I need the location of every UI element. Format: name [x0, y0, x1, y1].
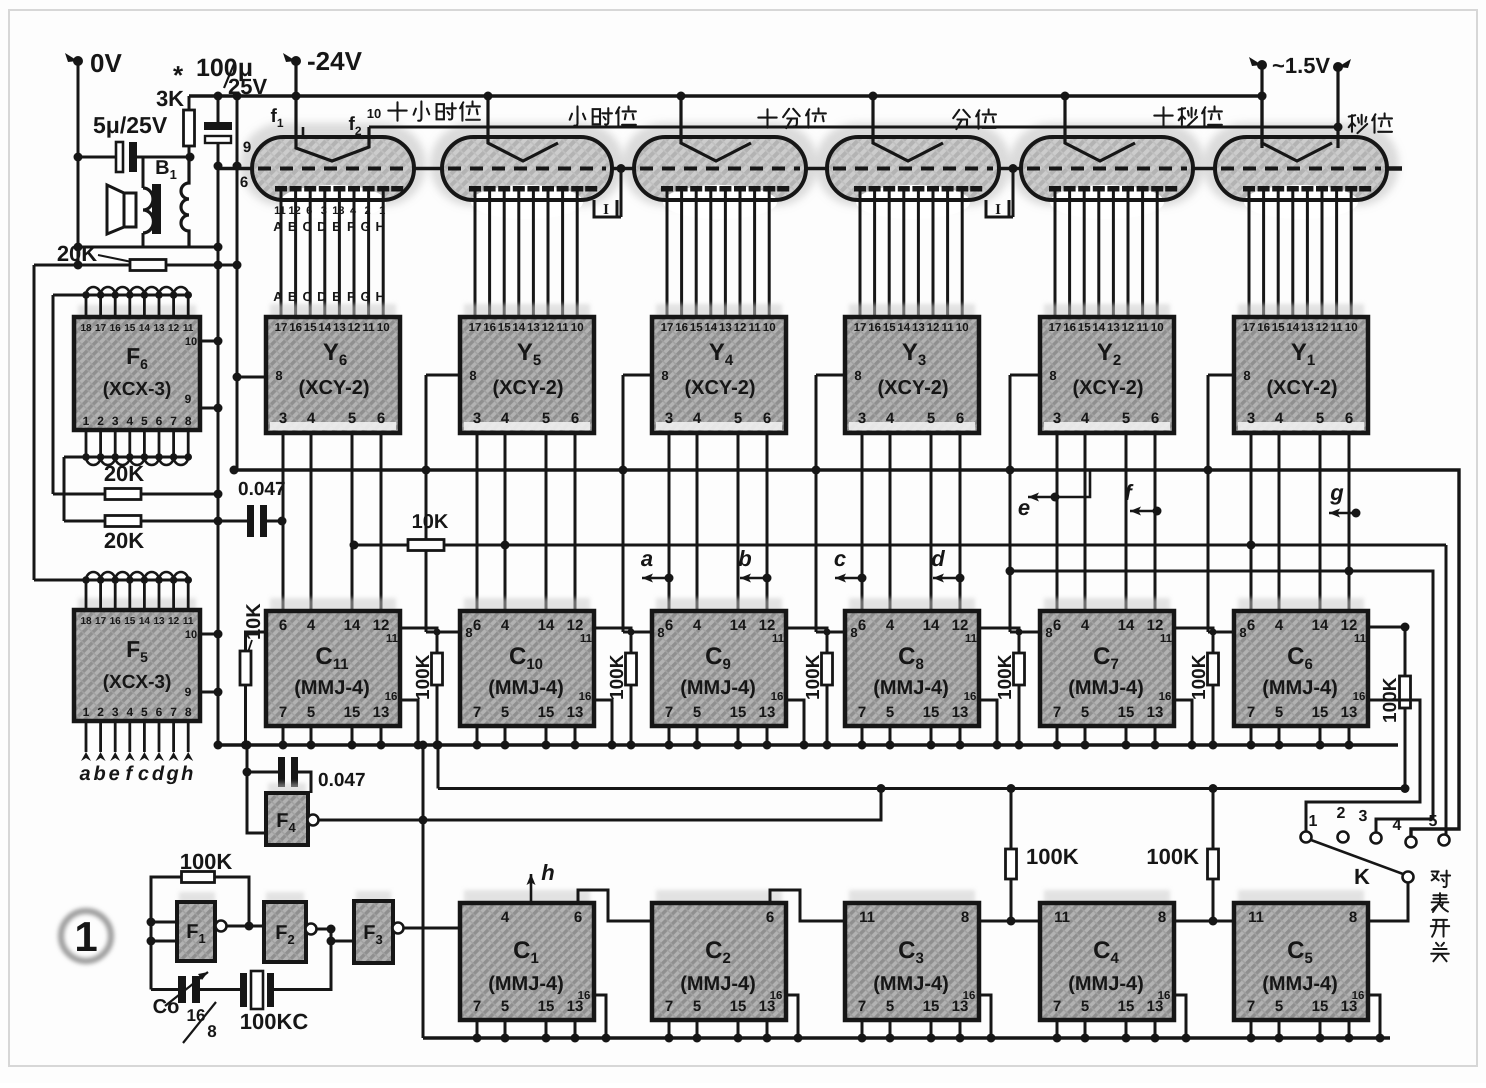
wire ground bus (C row) — [218, 743, 1398, 746]
svg-text:10: 10 — [571, 322, 584, 334]
svg-text:3: 3 — [665, 410, 673, 427]
svg-text:3: 3 — [1247, 410, 1255, 427]
svg-text:12: 12 — [168, 323, 180, 334]
svg-text:17: 17 — [1049, 322, 1062, 334]
svg-text:1: 1 — [379, 205, 385, 217]
C1 bottom pin wires — [476, 1020, 479, 1038]
C10 bottom pin wires — [476, 726, 479, 745]
svg-text:16: 16 — [110, 323, 122, 334]
svg-text:8: 8 — [207, 1022, 216, 1041]
svg-text:8: 8 — [465, 625, 472, 640]
svg-text:2: 2 — [97, 705, 104, 719]
Y3 bottom pin wires — [861, 433, 864, 611]
svg-text:5: 5 — [501, 998, 509, 1015]
svg-text:2: 2 — [97, 414, 104, 428]
svg-text:4: 4 — [1275, 410, 1284, 427]
svg-text:K: K — [1354, 864, 1370, 889]
C2 bottom pin wires — [668, 1020, 671, 1038]
C11 pin16 drop — [400, 700, 418, 745]
F5 top pin strap — [34, 579, 188, 582]
svg-text:8: 8 — [469, 368, 476, 383]
svg-text:A: A — [273, 219, 283, 234]
tube 2 label — [1154, 107, 1172, 125]
C5 pin16 drop — [1368, 995, 1380, 1038]
counter IC C8 (MMJ-4) — [849, 598, 975, 613]
svg-text:6: 6 — [1053, 617, 1061, 634]
wire reset vertical x423 — [422, 745, 425, 1038]
svg-text:8: 8 — [1349, 909, 1357, 926]
svg-text:B: B — [288, 289, 297, 304]
svg-text:0.047: 0.047 — [318, 770, 366, 791]
svg-text:4: 4 — [693, 617, 702, 634]
svg-text:6: 6 — [956, 410, 964, 427]
wire riser pin8 column 4 — [623, 374, 652, 377]
svg-text:10: 10 — [367, 106, 381, 121]
svg-text:13: 13 — [759, 704, 776, 721]
svg-text:10: 10 — [185, 629, 197, 641]
svg-text:4: 4 — [126, 414, 133, 428]
svg-text:Co: Co — [153, 996, 180, 1018]
C9 bottom pin wires — [668, 726, 671, 745]
svg-text:11: 11 — [942, 322, 955, 334]
svg-text:16: 16 — [1257, 322, 1270, 334]
svg-text:11: 11 — [859, 909, 875, 926]
svg-text:11: 11 — [749, 322, 762, 334]
C9 pin16 drop — [786, 700, 804, 745]
svg-text:17: 17 — [275, 322, 288, 334]
svg-text:15: 15 — [730, 998, 747, 1015]
terminal -24V — [291, 56, 301, 66]
svg-text:15: 15 — [1312, 704, 1329, 721]
wire bus H5 with 10K — [354, 544, 408, 547]
svg-text:13: 13 — [952, 704, 969, 721]
svg-text:16: 16 — [1158, 990, 1171, 1002]
wire bus2 — [438, 787, 1405, 790]
svg-text:E: E — [332, 219, 341, 234]
svg-text:(MMJ-4): (MMJ-4) — [488, 973, 564, 995]
svg-text:20K: 20K — [104, 528, 144, 553]
svg-text:8: 8 — [854, 368, 861, 383]
svg-text:8: 8 — [961, 909, 969, 926]
svg-text:15: 15 — [1118, 704, 1135, 721]
svg-text:7: 7 — [665, 998, 673, 1015]
tube 3 anode V and -24V drop — [873, 96, 943, 161]
svg-text:13: 13 — [1147, 704, 1164, 721]
C8 pin16 drop — [979, 700, 997, 745]
inverter F2 — [266, 892, 304, 904]
counter IC C6 (MMJ-4) — [1238, 598, 1364, 613]
tube 1 anode V and -24V drop — [1262, 96, 1332, 161]
wire F4 output to bus2 — [318, 789, 881, 821]
wire C6 pin16 to switch contact1 — [1306, 700, 1420, 832]
svg-text:d: d — [152, 763, 165, 785]
svg-text:15: 15 — [1078, 322, 1091, 334]
svg-text:(MMJ-4): (MMJ-4) — [294, 677, 370, 699]
svg-text:6: 6 — [763, 410, 771, 427]
nixie tube digit 2 glow — [1009, 123, 1205, 206]
svg-text:15: 15 — [690, 322, 703, 334]
svg-text:13: 13 — [527, 322, 540, 334]
wire B1 bottom return — [78, 246, 218, 249]
figure circle 1 — [61, 911, 111, 961]
svg-text:11: 11 — [580, 633, 593, 645]
svg-text:5: 5 — [1275, 704, 1283, 721]
F6 top pin strap — [53, 294, 188, 297]
svg-text:100K: 100K — [995, 654, 1016, 700]
resistor 100K column 10 — [594, 628, 631, 653]
svg-text:12: 12 — [1122, 322, 1135, 334]
svg-text:7: 7 — [1053, 704, 1061, 721]
F5 output arrows a b e f c d g h — [85, 721, 88, 752]
svg-text:7: 7 — [473, 704, 481, 721]
svg-text:8: 8 — [275, 368, 282, 383]
svg-text:16: 16 — [1063, 322, 1076, 334]
svg-text:9: 9 — [243, 139, 251, 156]
svg-text:16: 16 — [1159, 691, 1172, 703]
svg-text:18: 18 — [80, 616, 92, 627]
svg-text:11: 11 — [274, 205, 286, 217]
svg-text:15: 15 — [1272, 322, 1285, 334]
svg-text:(XCY-2): (XCY-2) — [1072, 377, 1143, 399]
svg-text:b: b — [738, 546, 751, 571]
Y5 bottom pin wires — [476, 433, 479, 611]
svg-text:G: G — [361, 219, 371, 234]
svg-text:6: 6 — [665, 617, 673, 634]
svg-text:17: 17 — [661, 322, 674, 334]
F6 bottom pin strap — [64, 456, 188, 459]
svg-text:12: 12 — [1147, 617, 1164, 634]
svg-text:10: 10 — [956, 322, 969, 334]
counter IC C1 (MMJ-4) — [464, 890, 590, 905]
svg-text:10: 10 — [763, 322, 776, 334]
svg-text:a: a — [641, 546, 653, 571]
C11 bottom pin wires — [282, 726, 285, 745]
svg-text:F: F — [347, 289, 355, 304]
svg-text:5: 5 — [501, 704, 509, 721]
labels a b c d arrows — [642, 577, 668, 580]
svg-text:(XCY-2): (XCY-2) — [684, 377, 755, 399]
svg-text:14: 14 — [923, 617, 940, 634]
svg-text:14: 14 — [344, 617, 361, 634]
svg-text:3: 3 — [112, 414, 119, 428]
svg-text:15: 15 — [730, 704, 747, 721]
C6 bottom pin wires — [1250, 726, 1253, 745]
counter IC C2 (MMJ-4) — [656, 890, 782, 905]
counter IC C7 (MMJ-4) — [1044, 598, 1170, 613]
svg-text:14: 14 — [730, 617, 747, 634]
svg-text:100K: 100K — [1146, 844, 1199, 869]
nixie tube digit 4 envelope — [634, 137, 806, 200]
svg-text:5: 5 — [1122, 410, 1130, 427]
wire riser pin8 column 3 — [816, 374, 845, 377]
counter IC C4 (MMJ-4) — [1044, 890, 1170, 905]
counter IC C9 (MMJ-4) — [656, 598, 782, 613]
vertical feed line x237 — [236, 96, 239, 470]
F5 right pins — [200, 633, 218, 636]
switch K wiper — [1311, 840, 1403, 874]
svg-text:3: 3 — [1359, 808, 1368, 825]
C4 bottom pin wires — [1056, 1020, 1059, 1038]
svg-text:C: C — [303, 219, 313, 234]
svg-text:4: 4 — [501, 617, 510, 634]
svg-text:c: c — [834, 546, 846, 571]
svg-text:14: 14 — [1312, 617, 1329, 634]
driver IC Y5 (XCY-2) — [464, 304, 590, 319]
svg-text:6: 6 — [240, 174, 248, 191]
svg-text:I: I — [995, 202, 1001, 218]
svg-text:11: 11 — [772, 633, 785, 645]
capacitor 0.047 #2 — [247, 771, 278, 774]
svg-text:15: 15 — [124, 616, 136, 627]
svg-text:13: 13 — [332, 205, 344, 217]
resistor 100K column 9 — [786, 628, 827, 653]
svg-text:5: 5 — [1429, 813, 1438, 830]
svg-text:12: 12 — [1341, 617, 1358, 634]
svg-text:16: 16 — [110, 616, 122, 627]
svg-text:3: 3 — [112, 705, 119, 719]
tube 1 label — [1349, 115, 1367, 133]
svg-text:12: 12 — [288, 205, 300, 217]
svg-text:10: 10 — [1151, 322, 1164, 334]
svg-text:100K: 100K — [1026, 844, 1079, 869]
wire riser pin8 column 2 — [1010, 374, 1040, 377]
svg-text:11: 11 — [183, 616, 194, 627]
svg-text:3: 3 — [1053, 410, 1061, 427]
svg-text:(MMJ-4): (MMJ-4) — [1262, 677, 1338, 699]
svg-text:e: e — [1018, 495, 1030, 520]
Y6 bottom pin wires — [282, 433, 285, 611]
svg-text:(MMJ-4): (MMJ-4) — [680, 677, 756, 699]
svg-text:14: 14 — [1286, 322, 1299, 334]
svg-text:4: 4 — [1275, 617, 1284, 634]
wire bottom ground bus — [423, 1036, 1390, 1039]
svg-text:17: 17 — [854, 322, 867, 334]
svg-text:7: 7 — [858, 704, 866, 721]
wire -24V anode bus H1 — [189, 94, 1262, 98]
tube 6 anode V and -24V drop — [296, 96, 369, 161]
svg-text:20K: 20K — [104, 461, 144, 486]
wire h output — [530, 874, 533, 903]
logic IC F5 (XCX-3) — [78, 598, 196, 612]
svg-text:17: 17 — [95, 323, 107, 334]
svg-text:8: 8 — [1045, 625, 1052, 640]
svg-text:12: 12 — [373, 617, 390, 634]
wire bus H4 — [234, 470, 1459, 837]
oscillator wiring — [151, 921, 177, 924]
svg-text:7: 7 — [1247, 998, 1255, 1015]
C7 pin16 drop — [1174, 700, 1192, 745]
svg-text:4: 4 — [307, 410, 316, 427]
svg-text:(XCY-2): (XCY-2) — [298, 377, 369, 399]
wire 0V rail — [77, 61, 80, 265]
svg-text:4: 4 — [1393, 817, 1402, 834]
tube 4 cathode pins — [666, 190, 669, 317]
svg-text:100K: 100K — [413, 654, 434, 700]
svg-text:e: e — [109, 763, 120, 785]
svg-text:4: 4 — [886, 617, 895, 634]
svg-text:-24V: -24V — [307, 46, 363, 76]
labels e f g arrows — [1028, 496, 1054, 499]
svg-text:15: 15 — [923, 998, 940, 1015]
counter IC C3 (MMJ-4) — [849, 890, 975, 905]
wire bus H6 — [1010, 571, 1433, 833]
tube 5 cathode pins — [474, 190, 477, 317]
svg-text:13: 13 — [153, 323, 165, 334]
svg-text:6: 6 — [858, 617, 866, 634]
nixie tube digit 5 glow — [430, 123, 624, 206]
svg-text:11: 11 — [1137, 322, 1150, 334]
svg-text:14: 14 — [704, 322, 717, 334]
svg-text:5: 5 — [1316, 410, 1324, 427]
svg-text:(MMJ-4): (MMJ-4) — [488, 677, 564, 699]
svg-text:H: H — [376, 219, 385, 234]
svg-text:7: 7 — [170, 414, 177, 428]
svg-text:3: 3 — [279, 410, 287, 427]
svg-text:D: D — [317, 289, 326, 304]
svg-text:100K: 100K — [607, 654, 628, 700]
svg-text:5: 5 — [307, 704, 315, 721]
svg-text:F: F — [347, 219, 355, 234]
svg-text:4: 4 — [501, 410, 510, 427]
C2 pin16 drop — [786, 995, 798, 1038]
svg-text:h: h — [541, 860, 554, 885]
wire filament line (dashed through tubes) — [218, 167, 252, 170]
wire grid bus H2 — [369, 126, 1338, 129]
svg-text:13: 13 — [373, 704, 390, 721]
svg-text:100K: 100K — [1189, 654, 1210, 700]
tube 4 label — [758, 109, 776, 127]
svg-text:13: 13 — [1341, 704, 1358, 721]
svg-text:11: 11 — [1054, 909, 1070, 926]
svg-text:14: 14 — [897, 322, 910, 334]
trimmer capacitor Co 16/8 — [151, 988, 178, 991]
svg-text:13: 13 — [333, 322, 346, 334]
nixie tube digit 3 envelope — [827, 137, 999, 200]
svg-text:12: 12 — [168, 616, 180, 627]
terminal ~1.5V pair — [1257, 60, 1267, 70]
wire riser pin8 column 5 — [426, 374, 460, 377]
svg-text:16: 16 — [385, 691, 398, 703]
svg-text:14: 14 — [318, 322, 331, 334]
svg-text:g: g — [165, 763, 178, 785]
svg-text:5: 5 — [886, 704, 894, 721]
svg-text:16: 16 — [963, 990, 976, 1002]
svg-text:(MMJ-4): (MMJ-4) — [1068, 677, 1144, 699]
svg-text:0V: 0V — [90, 48, 122, 78]
counter IC C11 (MMJ-4) — [270, 598, 396, 613]
svg-text:15: 15 — [1312, 998, 1329, 1015]
svg-text:(XCX-3): (XCX-3) — [103, 672, 172, 693]
svg-text:12: 12 — [567, 617, 584, 634]
svg-text:5: 5 — [542, 410, 550, 427]
svg-text:15: 15 — [304, 322, 317, 334]
svg-text:d: d — [931, 546, 945, 571]
svg-text:16: 16 — [289, 322, 302, 334]
svg-text:15: 15 — [124, 323, 136, 334]
svg-text:11: 11 — [386, 633, 399, 645]
svg-text:(MMJ-4): (MMJ-4) — [873, 677, 949, 699]
svg-text:15: 15 — [344, 704, 361, 721]
svg-text:5: 5 — [1081, 704, 1089, 721]
tube 1 cathode pins — [1248, 190, 1251, 317]
logic IC F6 (XCX-3) — [78, 305, 196, 319]
svg-text:c: c — [138, 763, 149, 785]
svg-text:7: 7 — [665, 704, 673, 721]
svg-text:4: 4 — [1081, 410, 1090, 427]
svg-text:8: 8 — [1158, 909, 1166, 926]
svg-text:6: 6 — [1247, 617, 1255, 634]
tube 3 label — [953, 110, 970, 129]
svg-text:14: 14 — [139, 323, 151, 334]
svg-text:8: 8 — [1239, 625, 1246, 640]
driver IC Y4 (XCY-2) — [656, 304, 782, 319]
svg-text:6: 6 — [473, 617, 481, 634]
svg-text:5: 5 — [734, 410, 742, 427]
svg-text:100K: 100K — [803, 654, 824, 700]
svg-text:12: 12 — [348, 322, 361, 334]
svg-text:15: 15 — [1118, 998, 1135, 1015]
tube 6 label — [388, 102, 406, 120]
svg-text:3: 3 — [321, 205, 327, 217]
svg-text:(XCY-2): (XCY-2) — [492, 377, 563, 399]
wire C4-C5 link — [1174, 920, 1234, 923]
svg-text:16: 16 — [1352, 990, 1365, 1002]
svg-text:16: 16 — [187, 1006, 206, 1025]
svg-text:17: 17 — [95, 616, 107, 627]
svg-text:15: 15 — [538, 998, 555, 1015]
svg-text:5: 5 — [348, 410, 356, 427]
svg-text:6: 6 — [571, 410, 579, 427]
resistor 100K (left of C5) — [1212, 789, 1215, 851]
svg-text:(MMJ-4): (MMJ-4) — [873, 973, 949, 995]
wire C3-C4 link — [979, 920, 1040, 923]
F6 right pins to x218 — [200, 340, 218, 343]
svg-text:7: 7 — [1053, 998, 1061, 1015]
svg-text:100KC: 100KC — [240, 1009, 309, 1034]
tube 5 label — [570, 106, 586, 125]
wire riser pin8 column 1 — [1208, 374, 1234, 377]
svg-text:a: a — [79, 763, 90, 785]
svg-text:G: G — [361, 289, 371, 304]
svg-text:16: 16 — [1353, 691, 1366, 703]
svg-text:5: 5 — [141, 705, 148, 719]
wire C1-C2 link — [578, 890, 652, 921]
svg-text:1: 1 — [1309, 813, 1318, 830]
inverter F4 — [268, 783, 306, 795]
switch K contacts — [1301, 832, 1312, 843]
svg-text:12: 12 — [734, 322, 747, 334]
C4 pin16 drop — [1174, 995, 1186, 1038]
wire C2-C3 link — [770, 890, 845, 921]
svg-text:10: 10 — [1345, 322, 1358, 334]
svg-text:h: h — [181, 763, 193, 785]
svg-text:8: 8 — [185, 705, 192, 719]
svg-text:11: 11 — [183, 323, 194, 334]
nixie tube digit 3 glow — [815, 123, 1011, 206]
svg-text:C: C — [303, 289, 313, 304]
svg-text:16: 16 — [578, 990, 591, 1002]
svg-text:~1.5V: ~1.5V — [1272, 53, 1330, 78]
svg-text:14: 14 — [1118, 617, 1135, 634]
svg-text:(XCY-2): (XCY-2) — [1266, 377, 1337, 399]
C1 pin16 drop — [594, 995, 606, 1038]
svg-text:1: 1 — [74, 913, 97, 960]
svg-text:6: 6 — [156, 414, 163, 428]
C7 bottom pin wires — [1056, 726, 1059, 745]
crystal 100KC — [240, 973, 247, 1007]
svg-text:(MMJ-4): (MMJ-4) — [1262, 973, 1338, 995]
resistor 100K (left of C4) — [1010, 789, 1013, 851]
